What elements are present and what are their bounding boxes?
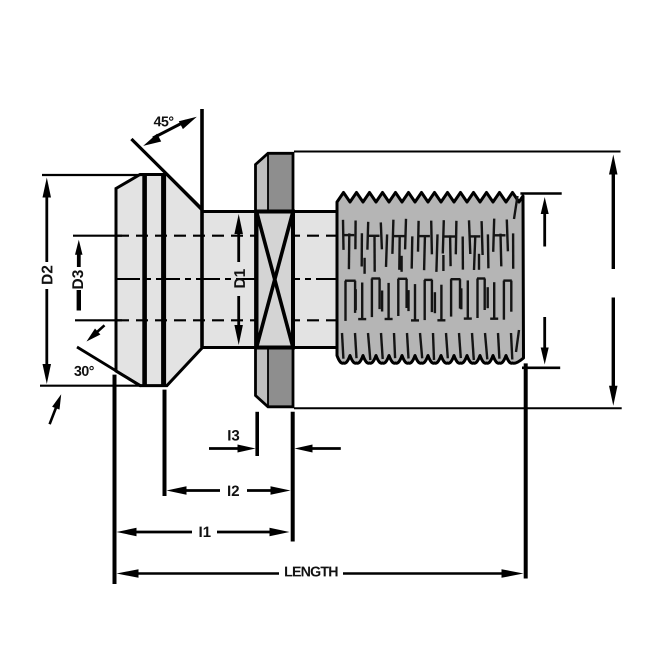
D3 top extension line	[73, 235, 122, 237]
I3 left extension line	[255, 412, 259, 456]
I2 dimension line with arrows	[167, 486, 187, 495]
flange cross-section band	[257, 212, 294, 348]
I3 dimension arrows (outside)	[238, 445, 256, 453]
label I1	[200, 527, 211, 537]
D2 bottom extension line	[40, 385, 141, 387]
LENGTH dimension line with arrows	[117, 569, 139, 578]
label I3	[228, 430, 239, 441]
label D3	[72, 270, 83, 288]
D3 bottom extension line	[75, 319, 122, 321]
D2 top extension line	[42, 174, 142, 176]
centerline (axis)	[116, 278, 336, 280]
thread diameter top tick	[520, 192, 561, 195]
flange outline	[256, 153, 294, 406]
label 30 deg	[74, 366, 94, 376]
threaded end	[337, 193, 524, 364]
shank (cylindrical body)	[201, 212, 339, 348]
flange top extension line	[294, 151, 621, 153]
overall diameter dimension line (right)	[609, 155, 618, 175]
30-degree leader arrow upper	[87, 329, 101, 342]
D1 dimension line with arrows	[234, 214, 243, 234]
head groove line 1	[142, 175, 147, 386]
thread diameter bottom tick	[522, 366, 560, 369]
flange dark strip	[268, 153, 293, 406]
label 45 deg	[154, 116, 174, 126]
label LENGTH	[285, 566, 337, 576]
flange X diagonal 2	[257, 212, 294, 348]
30-degree construction line	[77, 347, 141, 386]
LENGTH right extension line	[524, 363, 528, 578]
flange X diagonal 1	[257, 212, 294, 348]
I2 left extension line	[163, 390, 167, 496]
thread texture hatching	[342, 196, 519, 360]
45-degree angle double arrow	[143, 134, 161, 146]
head groove line 2	[161, 175, 166, 386]
I3/I2/I1 right extension line	[291, 412, 295, 542]
30-degree leader arrow lower	[52, 394, 61, 409]
flange strip divider	[267, 153, 269, 406]
I1 dimension line with arrows	[117, 528, 137, 536]
I1/LENGTH left extension line	[113, 375, 117, 584]
flange bottom extension line	[294, 407, 622, 409]
pull-stud head	[116, 175, 202, 386]
thread diameter arrows	[541, 197, 549, 214]
label D1	[234, 269, 245, 287]
label D2	[42, 266, 53, 284]
hidden diameter line lower (dashed)	[117, 319, 336, 321]
label I2	[228, 486, 239, 496]
vertical construction line	[200, 109, 204, 348]
hidden diameter line upper (dashed)	[117, 235, 336, 237]
D3 dimension line with arrows	[75, 240, 83, 255]
flange light strip	[256, 153, 269, 406]
45-degree chamfer construction line	[131, 139, 201, 209]
D2 dimension line with arrows	[43, 178, 52, 198]
